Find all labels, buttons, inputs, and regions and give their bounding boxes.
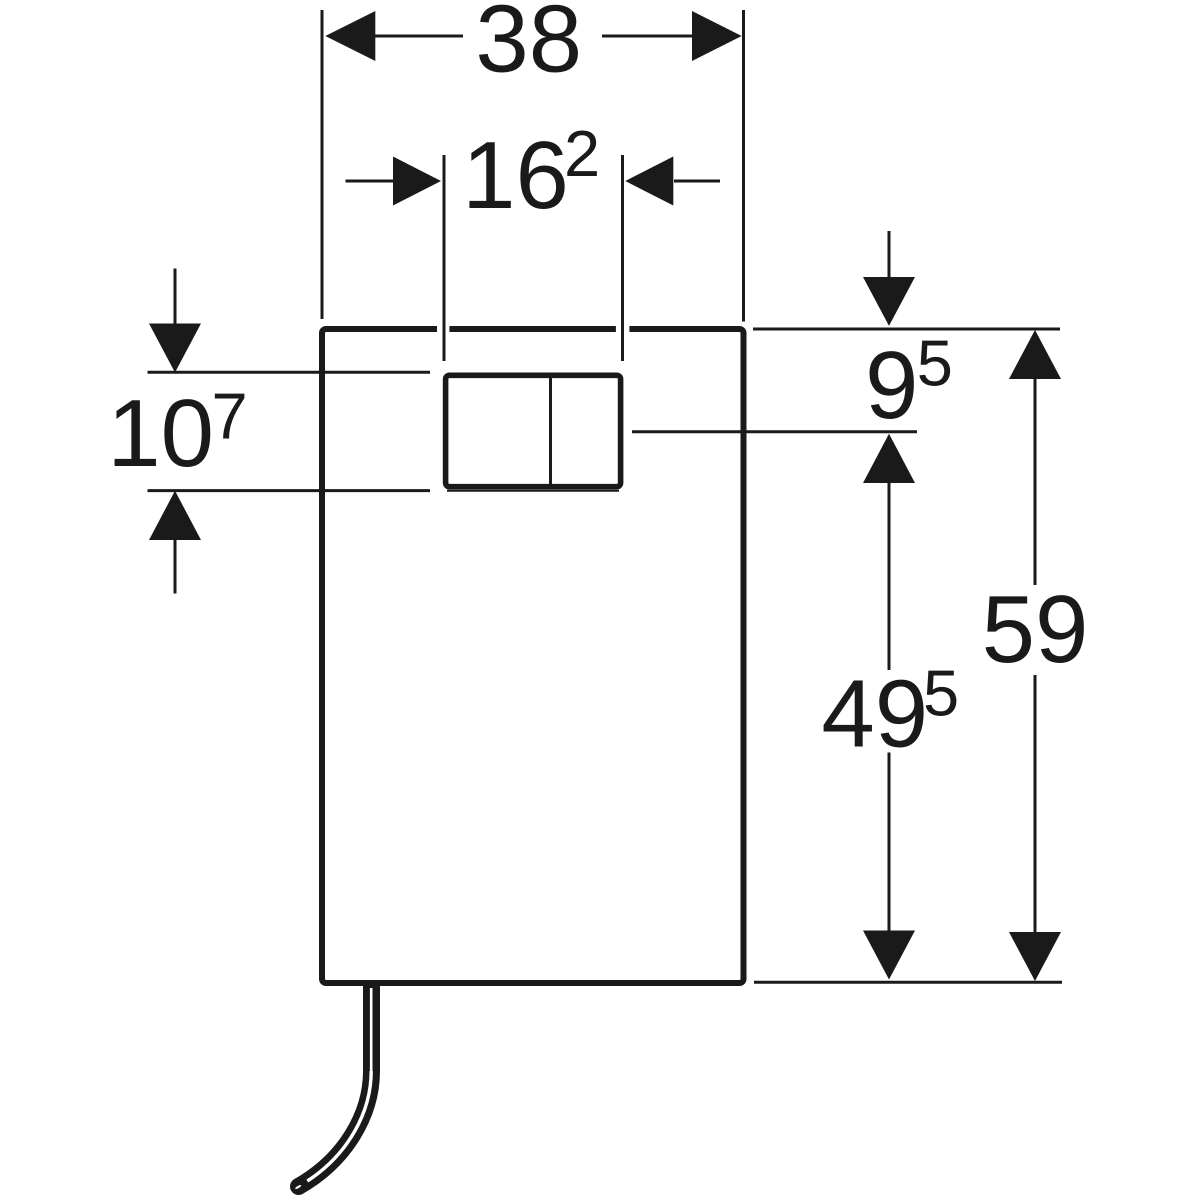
svg-text:59: 59 bbox=[982, 576, 1089, 683]
svg-text:10: 10 bbox=[107, 380, 214, 487]
svg-text:5: 5 bbox=[923, 657, 959, 730]
svg-text:9: 9 bbox=[865, 332, 918, 439]
svg-text:7: 7 bbox=[212, 379, 248, 452]
svg-text:38: 38 bbox=[475, 0, 582, 93]
svg-text:49: 49 bbox=[821, 661, 928, 768]
svg-text:2: 2 bbox=[564, 117, 600, 190]
svg-text:16: 16 bbox=[462, 122, 569, 229]
svg-text:5: 5 bbox=[917, 327, 953, 400]
